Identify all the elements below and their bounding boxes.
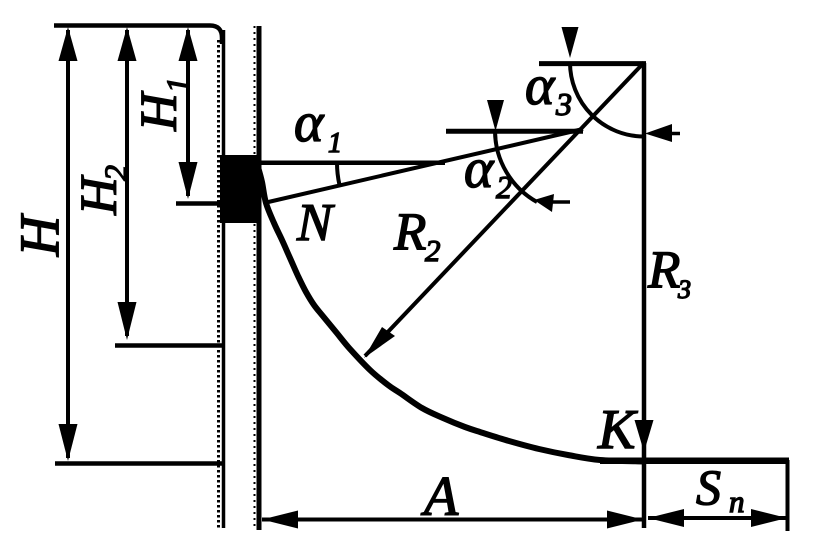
tangent line at N [264,129,583,203]
svg-text:α: α [294,92,325,154]
svg-text:K: K [597,399,638,461]
svg-text:1: 1 [328,128,342,159]
block (spillway lip) [220,155,258,223]
H2 bottom extension line [115,343,222,348]
R3 arrowhead pointing down at K [635,420,654,452]
apron top line (ground right) [600,457,789,464]
angle arc a2 [495,131,537,202]
apron right edge [786,460,790,531]
top datum line with corner into wall [54,26,222,45]
dimension line H [66,30,70,458]
svg-text:α: α [525,55,556,117]
svg-text:3: 3 [677,275,691,304]
svg-text:R: R [393,203,426,261]
horizontal reference line from block [258,160,445,165]
svg-text:2: 2 [97,165,133,181]
svg-text:H: H [131,91,188,132]
H1 bottom extension line [176,201,222,206]
profile curve N-K [258,167,644,462]
dimension line A [262,518,643,522]
arrowheads of H1 dimension [179,27,198,61]
dimension line Sn [648,516,787,520]
dimension line H2 [125,30,129,336]
svg-text:2: 2 [496,169,512,205]
svg-text:3: 3 [555,86,572,122]
R2 arrowhead on curve [364,327,395,358]
svg-text:N: N [296,194,335,252]
svg-text:S: S [696,459,721,515]
svg-text:A: A [420,466,459,528]
svg-text:α: α [464,138,495,200]
wall right line (stippled) [257,26,262,530]
svg-text:n: n [729,484,745,519]
angle arc a3 [570,63,644,137]
angle arc a1 [337,163,340,185]
arrowheads of H dimension [59,27,198,461]
svg-text:R: R [647,241,680,299]
a3 right arrow (left) with tail [645,124,672,142]
wall left line (dashed texture) [222,30,226,528]
svg-text:1: 1 [159,77,195,93]
second horizontal reference line [446,129,583,134]
a3 top arrow (down) [562,27,579,58]
top-right horizontal reference line [539,61,646,66]
arrowheads of H2 dimension [118,27,137,61]
radius line R2 (diagonal) [365,63,644,357]
vertical line R3 (radius) [642,63,647,528]
svg-text:H: H [9,213,71,257]
svg-text:2: 2 [425,233,441,268]
a2 end arrow (left) with tail [534,194,554,212]
H bottom extension line (left ground level) [55,461,222,466]
a2 start arrow (down) [487,100,504,131]
dimension line H1 [186,30,190,196]
